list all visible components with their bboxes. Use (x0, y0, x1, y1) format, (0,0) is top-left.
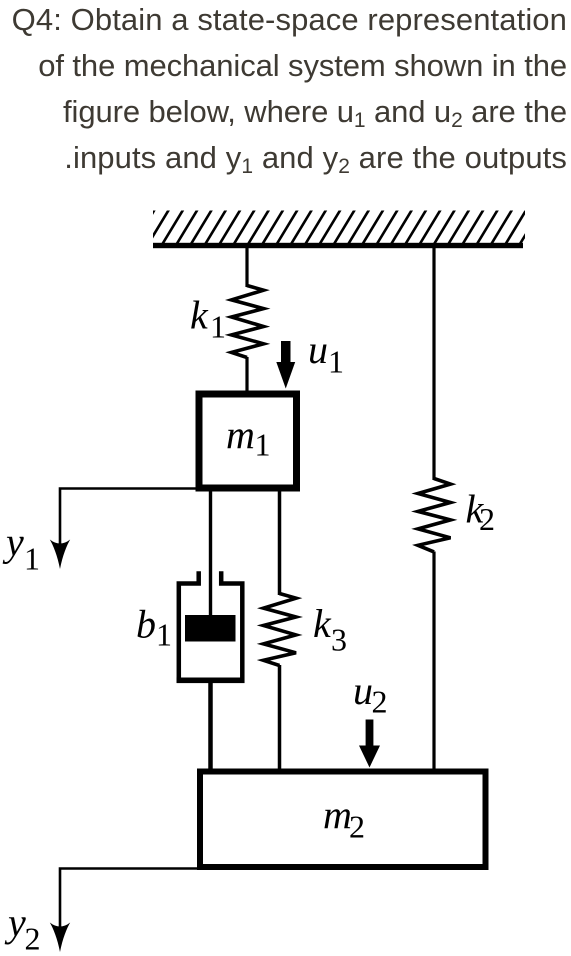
svg-text:1: 1 (156, 616, 172, 652)
svg-text:m: m (323, 792, 352, 837)
svg-text:2: 2 (349, 809, 365, 845)
svg-text:u: u (353, 668, 373, 713)
svg-text:2: 2 (372, 684, 388, 720)
svg-text:y: y (2, 520, 24, 565)
svg-text:1: 1 (328, 344, 344, 380)
svg-text:u: u (308, 327, 328, 372)
svg-text:1: 1 (24, 540, 40, 576)
svg-text:b: b (136, 602, 156, 647)
svg-text:1: 1 (210, 308, 226, 344)
svg-text:k: k (313, 601, 332, 646)
svg-text:m: m (226, 412, 255, 457)
svg-text:k: k (190, 293, 209, 338)
svg-text:1: 1 (255, 427, 271, 463)
svg-text:2: 2 (25, 920, 41, 956)
svg-text:2: 2 (479, 501, 495, 537)
svg-text:y: y (4, 900, 26, 945)
svg-text:3: 3 (331, 621, 347, 657)
